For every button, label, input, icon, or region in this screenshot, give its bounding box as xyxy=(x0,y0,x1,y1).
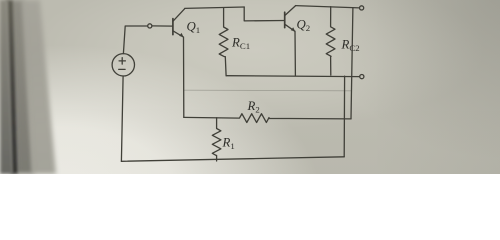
output terminal top xyxy=(360,6,364,10)
voltage source vs xyxy=(112,54,134,76)
wire rail1 (Q1 collector / RC1 top / to Q2 base) xyxy=(185,7,244,8)
wire bottom rail xyxy=(121,157,344,162)
wire line L (common) xyxy=(226,75,360,78)
resistor RC2 xyxy=(326,7,335,75)
wire step down to Q2 base xyxy=(244,7,285,21)
wire V1 rail2 to R2 right xyxy=(351,8,353,119)
wire Q1 emitter down to node E1 xyxy=(183,37,185,117)
wire vs top to input xyxy=(123,26,147,54)
wire input to Q1 base xyxy=(152,25,173,27)
wire vs bottom xyxy=(121,76,123,161)
wire rail2 (Q2 collector / RC2 / output top) xyxy=(296,6,360,8)
resistor R2 xyxy=(184,114,351,123)
resistor R1 xyxy=(212,118,221,161)
resistor RC1 xyxy=(219,8,228,76)
transistor Q1 xyxy=(173,9,185,38)
wire V2 line L to bottom rail xyxy=(343,76,345,157)
output terminal bottom xyxy=(360,75,364,79)
input terminal xyxy=(148,24,152,28)
transistor Q2 xyxy=(285,6,296,32)
wire Q2 emitter down xyxy=(294,31,296,76)
